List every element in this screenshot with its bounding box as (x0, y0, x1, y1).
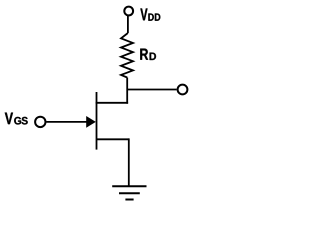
wire gate (46, 121, 88, 123)
wire source lead (97, 138, 129, 140)
wire drain lead (96, 102, 129, 104)
wire resistor to drain node (126, 78, 128, 104)
label VGS (5, 113, 28, 125)
gate arrow into Q1 (86, 116, 96, 128)
terminal output (178, 85, 188, 95)
ground (112, 186, 146, 199)
label RD (140, 49, 156, 60)
terminal VDD (124, 7, 133, 16)
wire VDD to resistor (127, 16, 129, 34)
resistor RD (121, 33, 133, 78)
label VDD (140, 9, 160, 21)
transistor Q1 channel bar (96, 92, 98, 150)
wire source to ground (128, 138, 130, 186)
terminal VGS input (35, 117, 45, 127)
wire drain node to output terminal (127, 89, 176, 91)
